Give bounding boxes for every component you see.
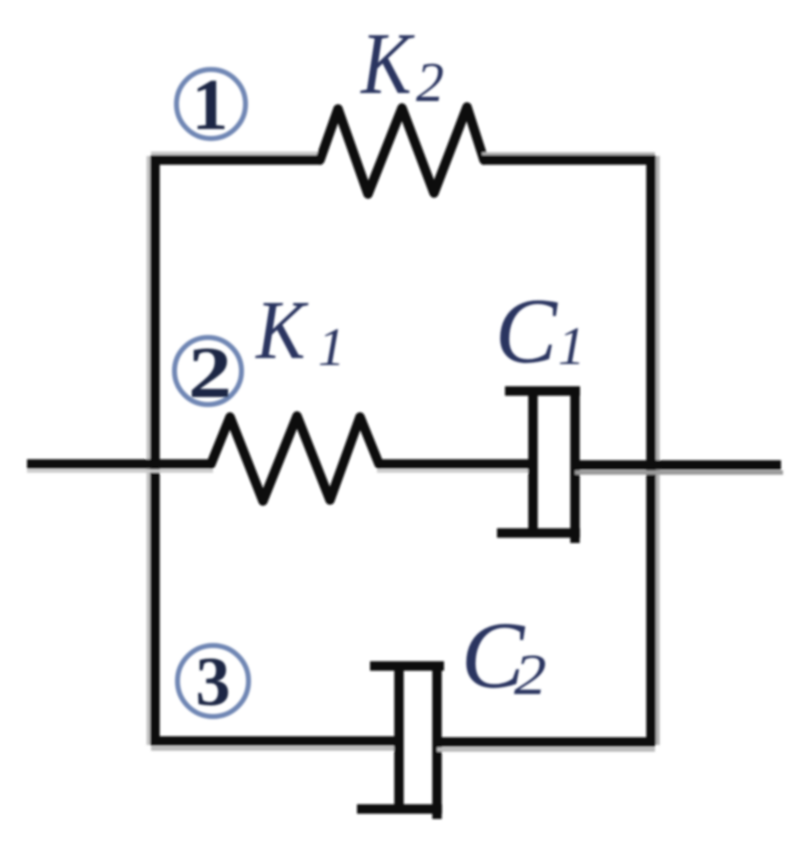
label C1 bbox=[495, 280, 585, 383]
spring K2 bbox=[320, 107, 484, 194]
node 3 circled label bbox=[178, 644, 249, 721]
label K2 bbox=[360, 15, 444, 114]
wire top-left segment bbox=[151, 154, 322, 161]
svg-text:K: K bbox=[255, 284, 309, 377]
wire bottom-left segment bbox=[151, 741, 399, 749]
svg-text:K: K bbox=[360, 15, 415, 113]
svg-text:2: 2 bbox=[514, 643, 546, 707]
node 1 circled label bbox=[177, 64, 246, 145]
damper C1 bbox=[497, 387, 580, 543]
svg-text:1: 1 bbox=[318, 317, 345, 377]
wire middle-left segment bbox=[27, 464, 213, 471]
damper C2 bbox=[357, 662, 444, 819]
svg-text:1: 1 bbox=[558, 316, 585, 376]
node 2 circled label bbox=[175, 333, 242, 414]
wire bottom-right segment bbox=[437, 742, 655, 750]
svg-text:2: 2 bbox=[188, 333, 232, 414]
svg-text:2: 2 bbox=[416, 52, 444, 114]
label C2 bbox=[461, 602, 546, 708]
wire top-right segment bbox=[482, 155, 655, 161]
wire middle-right segment bbox=[575, 465, 783, 473]
spring K1 bbox=[211, 416, 379, 501]
svg-text:C: C bbox=[495, 280, 558, 383]
wire middle-center segment bbox=[377, 464, 533, 471]
wire left rail bbox=[149, 156, 156, 745]
svg-text:1: 1 bbox=[192, 64, 229, 145]
label K1 bbox=[255, 284, 345, 377]
wire right rail bbox=[651, 156, 658, 745]
svg-text:3: 3 bbox=[196, 644, 231, 721]
